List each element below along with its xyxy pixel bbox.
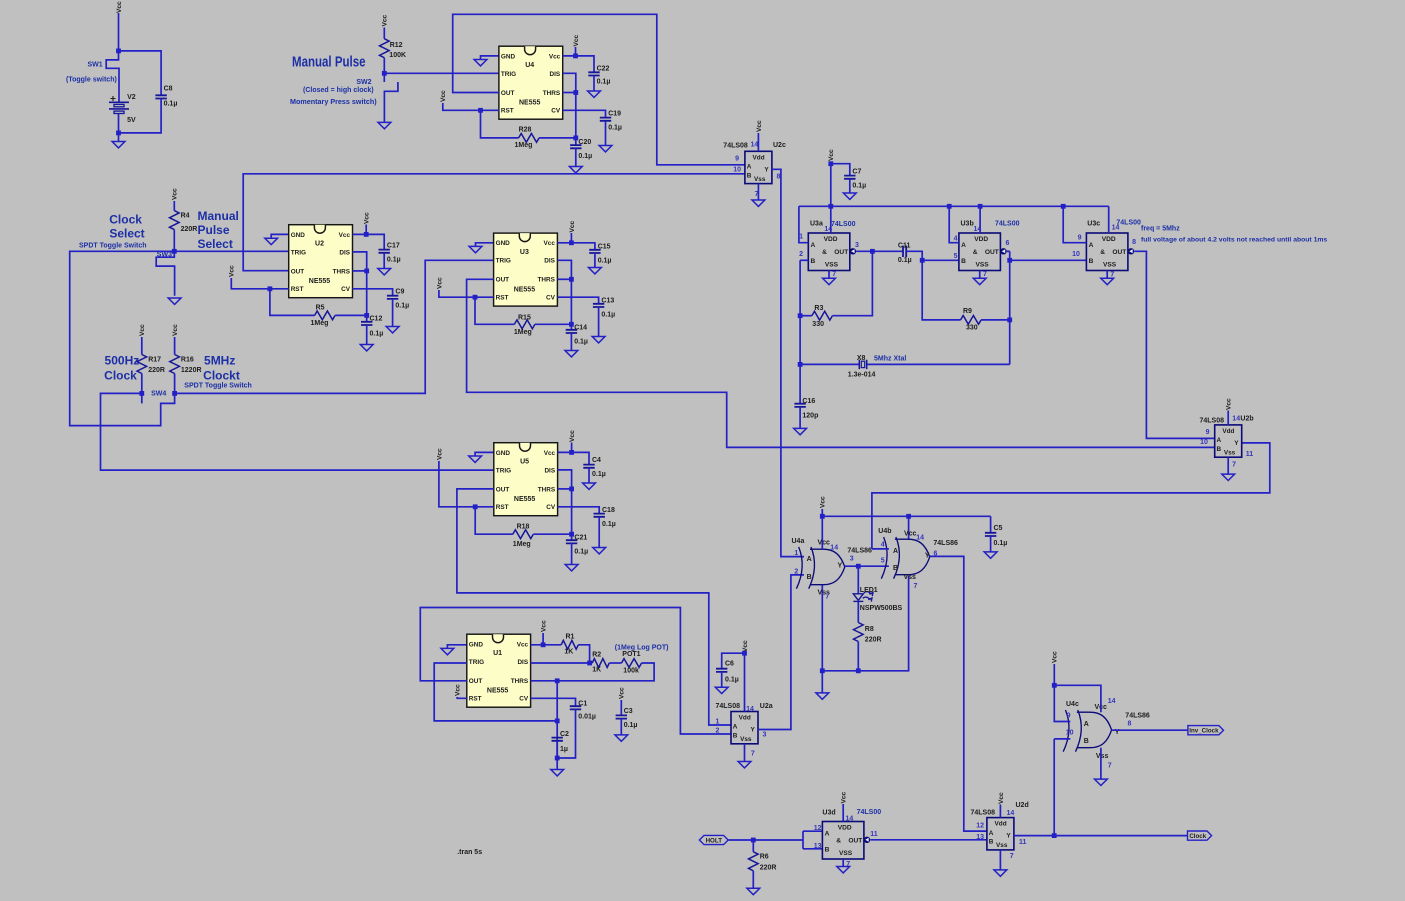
svg-text:.tran 5s: .tran 5s xyxy=(457,849,482,856)
svg-text:1Meg: 1Meg xyxy=(513,541,531,548)
wire U3c 7 xyxy=(1106,271,1108,279)
svg-text:C15: C15 xyxy=(598,244,611,251)
svg-text:Vcc: Vcc xyxy=(139,324,146,336)
svg-text:Vcc: Vcc xyxy=(339,232,351,239)
svg-text:0.1µ: 0.1µ xyxy=(601,312,615,319)
wire U3 GND xyxy=(476,243,494,246)
LED LED1 xyxy=(853,592,873,602)
svg-text:Vcc: Vcc xyxy=(382,14,389,26)
wire bus end to U3c 14 xyxy=(1108,206,1110,233)
resistor R4 xyxy=(170,211,180,230)
wire U3 OUT to U2b B xyxy=(467,279,1215,447)
wire C9 to gnd xyxy=(392,299,394,326)
svg-text:0.1µ: 0.1µ xyxy=(598,258,612,265)
ground SW3 xyxy=(168,298,181,304)
svg-text:Clock: Clock xyxy=(109,212,142,226)
svg-text:10: 10 xyxy=(1072,251,1080,258)
node bus U3c A xyxy=(1061,204,1066,209)
svg-text:RST: RST xyxy=(496,295,509,302)
wire C22 to gnd xyxy=(593,76,595,91)
ground U1 GND xyxy=(441,648,454,654)
wire U2 GND xyxy=(271,234,289,238)
svg-text:A: A xyxy=(811,242,816,249)
svg-text:Vcc: Vcc xyxy=(998,792,1005,804)
xor U4b 74LS86 xyxy=(881,537,929,579)
svg-text:500Hz: 500Hz xyxy=(105,354,140,368)
wire C21 to gnd xyxy=(571,543,573,564)
svg-text:U2b: U2b xyxy=(1240,416,1253,423)
ground SW2 xyxy=(378,122,391,128)
capacitor C16 xyxy=(794,404,805,407)
capacitor C20 xyxy=(570,145,581,148)
node U4a Y xyxy=(856,564,861,569)
svg-text:A: A xyxy=(807,556,812,563)
wire Vcc flag U2 xyxy=(365,225,367,235)
svg-text:VSS: VSS xyxy=(1103,261,1117,268)
ground C12 xyxy=(360,345,373,351)
svg-text:Vcc: Vcc xyxy=(541,620,548,632)
node C2 bottom xyxy=(555,756,560,761)
resistor R16 xyxy=(170,355,180,374)
svg-text:NSPW500BS: NSPW500BS xyxy=(860,605,903,612)
capacitor C18 xyxy=(594,514,605,517)
svg-text:Vdd: Vdd xyxy=(995,821,1007,828)
svg-text:DIS: DIS xyxy=(550,71,561,78)
svg-text:5MHz: 5MHz xyxy=(204,354,235,368)
svg-text:1220R: 1220R xyxy=(181,367,202,374)
svg-text:&: & xyxy=(836,837,841,844)
wire rail to gnd xyxy=(821,671,823,693)
svg-text:Vdd: Vdd xyxy=(753,154,765,161)
svg-text:C3: C3 xyxy=(624,708,633,715)
svg-text:12: 12 xyxy=(976,823,984,830)
capacitor C6 xyxy=(716,669,727,672)
svg-text:C19: C19 xyxy=(608,111,621,118)
ground C7 xyxy=(843,193,856,199)
wire down to R9 xyxy=(922,260,960,320)
nand U3b 74LS00 xyxy=(959,233,1001,271)
resistor R6 xyxy=(749,852,759,871)
svg-text:Vcc: Vcc xyxy=(436,448,443,460)
nand U3d 74LS00 xyxy=(822,822,864,860)
node Vcc bus U4b xyxy=(906,514,911,519)
svg-text:220R: 220R xyxy=(760,865,777,872)
wire R12 to node xyxy=(383,58,385,74)
svg-text:5V: 5V xyxy=(127,117,136,124)
node R3 left xyxy=(798,313,803,318)
svg-text:freq = 5Mhz: freq = 5Mhz xyxy=(1141,226,1180,233)
resistor POT1 xyxy=(622,659,642,668)
svg-text:74LS00: 74LS00 xyxy=(857,809,882,816)
svg-text:Vcc: Vcc xyxy=(573,34,580,46)
svg-text:14: 14 xyxy=(1108,698,1116,705)
svg-text:1Meg: 1Meg xyxy=(311,320,329,327)
svg-text:C17: C17 xyxy=(387,243,400,250)
wire R16 down xyxy=(174,374,176,394)
svg-text:0.1µ: 0.1µ xyxy=(608,125,622,132)
node C6 tap xyxy=(742,651,747,656)
ground U3c xyxy=(1101,278,1114,284)
svg-text:R3: R3 xyxy=(814,305,823,312)
svg-text:SW1: SW1 xyxy=(88,62,103,69)
wire U4 THRS xyxy=(563,92,576,94)
node U2 RST xyxy=(268,286,273,291)
wire Vcc to R12 xyxy=(383,28,385,39)
wire SW2 lower step xyxy=(384,82,398,122)
wire U3d input bracket xyxy=(802,831,804,849)
resistor R28 xyxy=(519,134,540,143)
resistor R9 xyxy=(961,316,982,325)
wire U4c B down to clock net xyxy=(1053,739,1055,836)
wire U5 THRS xyxy=(558,488,572,490)
wire to C16 xyxy=(799,364,801,403)
svg-text:14: 14 xyxy=(751,142,759,149)
svg-text:2: 2 xyxy=(794,569,798,576)
svg-text:U4c: U4c xyxy=(1066,701,1079,708)
svg-text:330: 330 xyxy=(812,321,824,328)
wire node to C12 xyxy=(366,315,368,321)
svg-text:Momentary Press switch): Momentary Press switch) xyxy=(290,97,377,106)
svg-text:Vcc: Vcc xyxy=(544,240,556,247)
svg-text:74LS08: 74LS08 xyxy=(970,810,995,817)
node R9 right xyxy=(1007,318,1012,323)
wire U3 THRS xyxy=(557,278,571,280)
ground U2c xyxy=(752,200,765,206)
wire U2a 7 to gnd xyxy=(744,744,746,762)
svg-text:OUT: OUT xyxy=(469,678,483,685)
wire U1 DIS to R2 xyxy=(531,662,593,664)
ground U1 C2 xyxy=(551,770,564,776)
svg-text:Clock: Clock xyxy=(1189,833,1206,840)
wire U4a Vss down xyxy=(821,585,823,671)
svg-text:1.3e-014: 1.3e-014 xyxy=(848,371,876,378)
wire RST to R15 xyxy=(475,297,514,324)
wire U3b 7 xyxy=(979,271,981,279)
wire U5 CV to C18 xyxy=(558,507,600,514)
svg-text:R6: R6 xyxy=(760,854,769,861)
wire U2 CV to C9 xyxy=(353,289,393,296)
node U3 THRS xyxy=(569,277,574,282)
capacitor C4 xyxy=(583,465,594,468)
svg-text:7: 7 xyxy=(1108,763,1112,770)
svg-text:VDD: VDD xyxy=(838,825,852,832)
wire Vcc flag U3 xyxy=(570,233,572,243)
node HOLT R6 xyxy=(751,838,756,843)
svg-text:THRS: THRS xyxy=(333,268,351,275)
svg-text:R9: R9 xyxy=(963,308,972,315)
wire Vcc to C3 xyxy=(620,700,622,715)
and-gate U2b 74LS08 xyxy=(1215,425,1242,457)
svg-text:B: B xyxy=(1089,258,1094,265)
svg-text:100K: 100K xyxy=(389,52,406,59)
wire U2d 7 to gnd xyxy=(999,850,1001,870)
svg-text:Vss: Vss xyxy=(740,736,752,743)
svg-text:A: A xyxy=(1217,437,1222,444)
svg-text:9: 9 xyxy=(1078,235,1082,242)
ground C14 xyxy=(565,351,578,357)
svg-text:CV: CV xyxy=(551,108,561,115)
svg-text:NE555: NE555 xyxy=(487,687,509,694)
svg-text:14: 14 xyxy=(916,535,924,542)
IC U5 NE555 timer xyxy=(494,443,558,516)
ground U3d xyxy=(837,867,850,873)
svg-text:R15: R15 xyxy=(518,315,531,322)
svg-text:R8: R8 xyxy=(865,626,874,633)
resistor R3 xyxy=(812,311,833,320)
wire C15 to gnd xyxy=(594,253,596,267)
wire node to gnd xyxy=(556,758,558,769)
node V2 bottom xyxy=(116,131,121,136)
resistor R18 xyxy=(513,530,534,539)
node bus U3b A xyxy=(947,204,952,209)
wire U5 OUT to U2a A xyxy=(457,489,731,725)
wire Vcc to U2d 14 xyxy=(999,805,1001,818)
node U2 THRS xyxy=(364,269,369,274)
wire bus to U3a A xyxy=(799,206,808,242)
svg-text:Inv_Clock: Inv_Clock xyxy=(1189,728,1219,735)
flag Clock xyxy=(1188,831,1212,840)
wire R18 to C21 node xyxy=(533,533,571,535)
ground C21 xyxy=(565,565,578,571)
wire Vcc to U3d 14 xyxy=(842,804,844,822)
svg-text:10: 10 xyxy=(1066,730,1074,737)
wire C3 to gnd xyxy=(620,719,622,735)
capacitor C3 xyxy=(616,715,627,718)
wire U1 GND xyxy=(447,645,466,648)
wire SW4 bus to U3 TRIG xyxy=(175,260,494,393)
wire U3d 7 to gnd xyxy=(842,859,844,866)
capacitor C14 xyxy=(566,330,577,333)
svg-text:220R: 220R xyxy=(865,637,882,644)
svg-text:C11: C11 xyxy=(898,242,911,249)
svg-text:Pulse: Pulse xyxy=(198,223,230,237)
wire R4 down xyxy=(173,230,175,252)
resistor R12 xyxy=(380,39,390,58)
node U5 R18 C21 xyxy=(569,532,574,537)
wire Vcc flag U5 xyxy=(571,443,573,453)
wire node to R6 xyxy=(752,840,754,852)
wire C17 to gnd xyxy=(383,253,385,268)
svg-text:0.1µ: 0.1µ xyxy=(725,677,739,684)
svg-text:7: 7 xyxy=(825,593,829,600)
svg-text:0.1µ: 0.1µ xyxy=(395,303,409,310)
node SW1 top xyxy=(116,49,121,54)
ground C6 xyxy=(715,687,728,693)
svg-text:R4: R4 xyxy=(181,213,190,220)
svg-text:0.1µ: 0.1µ xyxy=(578,153,592,160)
wire U3a OUT to C11 xyxy=(856,250,903,252)
wire HOLT to U3d xyxy=(727,839,803,841)
svg-text:C12: C12 xyxy=(370,316,383,323)
node U1 THRS xyxy=(555,678,560,683)
svg-text:74LS00: 74LS00 xyxy=(831,221,856,228)
wire bus to U3b 14 xyxy=(979,206,981,233)
wire U3d OUT to U2d B xyxy=(870,839,987,841)
svg-text:74LS08: 74LS08 xyxy=(1199,417,1224,424)
wire Vcc to R4 xyxy=(173,201,175,211)
capacitor C11 xyxy=(903,246,906,257)
IC U1 NE555 timer xyxy=(467,634,531,707)
svg-text:VDD: VDD xyxy=(824,236,838,243)
svg-text:Y: Y xyxy=(925,553,930,560)
capacitor C13 xyxy=(593,304,604,307)
svg-text:&: & xyxy=(1100,249,1105,256)
svg-text:4: 4 xyxy=(954,235,958,242)
svg-text:C16: C16 xyxy=(802,398,815,405)
wire U2b Y into U4b A xyxy=(872,548,889,550)
svg-text:14: 14 xyxy=(830,545,838,552)
svg-text:Y: Y xyxy=(1234,440,1239,447)
svg-text:U3c: U3c xyxy=(1087,221,1100,228)
wire U1 OUT to U2a B xyxy=(420,608,731,735)
svg-text:8: 8 xyxy=(1128,720,1132,727)
IC U2 NE555 timer xyxy=(289,225,353,298)
wire R15 to C14 node xyxy=(535,323,572,325)
wire Vcc to U2c 14 xyxy=(757,133,759,151)
wire U4 CV to C19 xyxy=(563,110,606,117)
svg-text:0.01µ: 0.01µ xyxy=(578,713,596,720)
wire R1 to R2 xyxy=(578,645,589,663)
ground C19 xyxy=(599,146,612,152)
svg-text:2: 2 xyxy=(715,728,719,735)
svg-text:C22: C22 xyxy=(597,65,610,72)
IC U4 NE555 timer xyxy=(499,46,563,119)
svg-text:1: 1 xyxy=(715,719,719,726)
svg-text:74LS00: 74LS00 xyxy=(995,221,1020,228)
svg-text:C8: C8 xyxy=(164,86,173,93)
svg-text:74LS86: 74LS86 xyxy=(847,547,872,554)
wire C13 to gnd xyxy=(598,307,600,336)
capacitor C7 xyxy=(844,176,855,179)
wire C6 to gnd xyxy=(721,672,723,687)
svg-text:U4: U4 xyxy=(525,62,534,69)
svg-text:Select: Select xyxy=(198,237,233,251)
svg-text:Vcc: Vcc xyxy=(569,430,576,442)
svg-text:13: 13 xyxy=(814,843,822,850)
wire U2b Y loop xyxy=(872,443,1270,549)
svg-text:74LS08: 74LS08 xyxy=(715,703,740,710)
svg-text:TRIG: TRIG xyxy=(496,258,511,265)
svg-text:VSS: VSS xyxy=(839,850,853,857)
svg-text:R5: R5 xyxy=(316,305,325,312)
svg-text:5Mhz Xtal: 5Mhz Xtal xyxy=(874,355,906,362)
svg-text:GND: GND xyxy=(496,450,511,457)
svg-text:B: B xyxy=(961,258,966,265)
svg-text:Vcc: Vcc xyxy=(828,149,835,161)
svg-text:OUT: OUT xyxy=(834,249,848,256)
svg-text:B: B xyxy=(807,574,812,581)
svg-text:B: B xyxy=(989,839,994,846)
wire Vcc bus to U4a 14 xyxy=(821,509,823,549)
svg-text:U2c: U2c xyxy=(773,142,786,149)
wire SW1 step xyxy=(106,51,119,102)
svg-text:Vcc: Vcc xyxy=(820,496,827,508)
svg-text:CV: CV xyxy=(546,295,556,302)
ground C20 xyxy=(569,167,582,173)
wire to U3c B xyxy=(1010,259,1087,261)
flag HOLT xyxy=(699,835,728,844)
wire U4 GND xyxy=(481,56,499,59)
node SW2 xyxy=(382,71,387,76)
capacitor C9 xyxy=(387,296,398,299)
IC U3 NE555 timer xyxy=(494,233,558,306)
svg-text:330: 330 xyxy=(966,325,978,332)
wire U3b OUT stub xyxy=(1007,250,1010,252)
wire U3 CV to C13 xyxy=(557,297,598,304)
wire U1 Vcc to R1 xyxy=(531,644,562,646)
node U2 R5 C12 xyxy=(364,313,369,318)
svg-text:THRS: THRS xyxy=(511,678,529,685)
xor U4c 74LS86 xyxy=(1063,710,1111,752)
node U3a OUT xyxy=(870,249,875,254)
svg-text:7: 7 xyxy=(832,271,836,278)
svg-text:Manual: Manual xyxy=(198,209,239,223)
svg-text:Vcc: Vcc xyxy=(172,188,179,200)
wire R8 to rail xyxy=(857,642,859,671)
ground U2d xyxy=(994,870,1007,876)
wire U4b Y to U2d A xyxy=(930,556,987,831)
xor U4a 74LS86 xyxy=(796,547,844,589)
svg-text:6: 6 xyxy=(1006,240,1010,247)
svg-text:OUT: OUT xyxy=(501,90,515,97)
svg-text:A: A xyxy=(1089,242,1094,249)
wire C18 to gnd xyxy=(598,517,600,548)
node U3b OUT tap xyxy=(1007,258,1012,263)
wire Vcc flag U1 down xyxy=(542,633,544,645)
wire Vcc bus NAND xyxy=(799,205,1109,207)
svg-text:(Closed = high clock): (Closed = high clock) xyxy=(303,87,374,94)
svg-text:C21: C21 xyxy=(574,535,587,542)
svg-text:A: A xyxy=(825,830,830,837)
svg-text:Manual Pulse: Manual Pulse xyxy=(292,54,366,71)
svg-text:THRS: THRS xyxy=(537,277,555,284)
svg-text:R1: R1 xyxy=(566,633,575,640)
node U4c Vcc xyxy=(1052,683,1057,688)
svg-text:14: 14 xyxy=(1232,416,1240,423)
svg-text:NE555: NE555 xyxy=(309,278,331,285)
battery V2 xyxy=(109,102,129,113)
wire bus to U3a 14 xyxy=(830,206,832,233)
svg-text:TRIG: TRIG xyxy=(469,659,484,666)
wire U2 THRS xyxy=(353,270,367,272)
resistor R1 xyxy=(561,640,578,649)
svg-text:U2a: U2a xyxy=(760,703,773,710)
svg-text:Vcc: Vcc xyxy=(364,212,371,224)
wire R3 to U3a OUT xyxy=(832,251,872,315)
wire U2d Y to Clock xyxy=(1014,835,1188,837)
svg-text:OUT: OUT xyxy=(1112,249,1126,256)
wire Vcc to U1 RST xyxy=(457,697,467,698)
node C7 tap xyxy=(828,161,833,166)
svg-text:RST: RST xyxy=(469,696,482,703)
wire U1 TRIG down xyxy=(434,663,557,721)
node U3 R15 C14 xyxy=(569,322,574,327)
wire R2 to POT1 xyxy=(609,662,621,664)
svg-text:U1: U1 xyxy=(493,650,502,657)
wire Vcc to U2b 14 xyxy=(1227,411,1229,425)
svg-text:V2: V2 xyxy=(127,94,136,101)
svg-text:7: 7 xyxy=(983,271,987,278)
svg-text:C1: C1 xyxy=(578,700,587,707)
ground U3 GND xyxy=(469,246,482,252)
svg-text:OUT: OUT xyxy=(496,277,510,284)
svg-text:Vcc: Vcc xyxy=(756,120,763,132)
wire node to C8 xyxy=(119,51,162,95)
and-gate U2a 74LS08 xyxy=(731,712,758,744)
svg-text:74LS08: 74LS08 xyxy=(723,143,748,150)
ground C18 xyxy=(593,548,606,554)
capacitor C8 xyxy=(155,95,166,98)
